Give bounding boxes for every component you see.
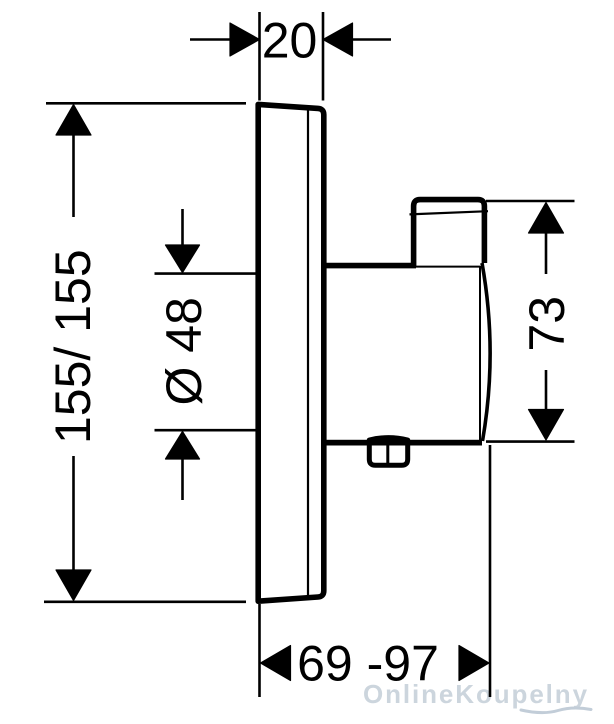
svg-text:73: 73: [519, 296, 575, 352]
svg-text:Ø 48: Ø 48: [156, 297, 212, 405]
svg-text:69 -97: 69 -97: [297, 636, 439, 692]
svg-text:155/ 155: 155/ 155: [45, 249, 101, 444]
svg-text:20: 20: [262, 13, 318, 69]
